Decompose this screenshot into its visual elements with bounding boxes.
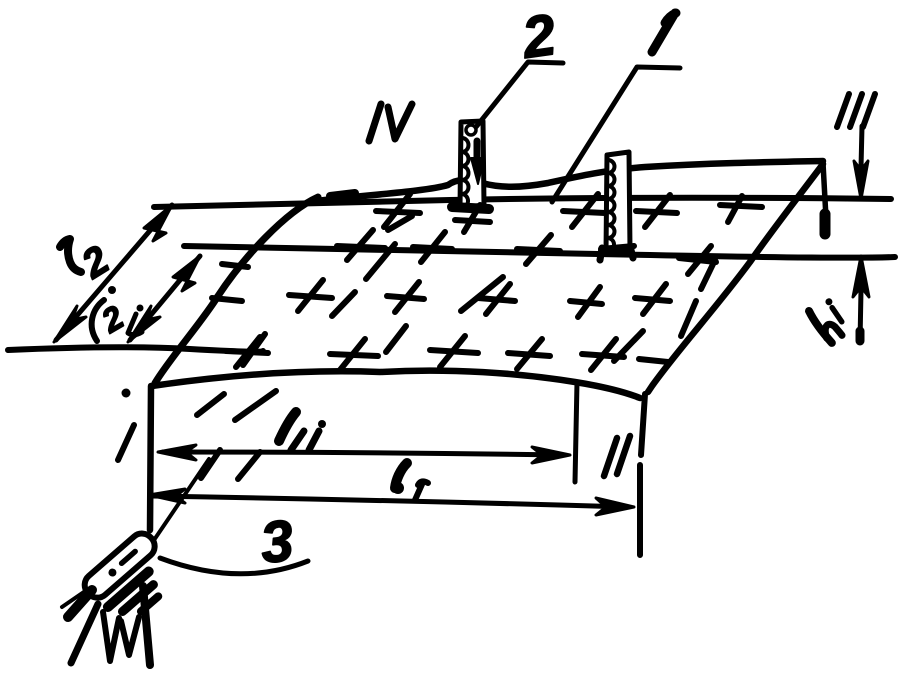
wire right vertical edge of front face	[575, 382, 577, 482]
label III (corner)	[837, 94, 875, 127]
label II (corner)	[604, 436, 630, 476]
markers row 3 (front edge)	[226, 336, 668, 370]
level instrument 3 on tripod	[62, 459, 209, 665]
wire right diagonal edge from corner III to corner II	[648, 164, 823, 392]
markers row 1 (between lines A and B)	[376, 194, 762, 227]
dimension l2i bottom arrowhead	[128, 306, 160, 342]
wire right vertical edge below corner II	[640, 394, 645, 555]
dimension l1 right arrowhead	[596, 498, 634, 515]
junction knot at top of left edge	[330, 193, 355, 196]
leader for label 2	[476, 62, 563, 127]
telescope tube	[80, 529, 183, 630]
mount block	[108, 572, 149, 607]
dimension l1 line	[152, 496, 628, 507]
label hi	[802, 293, 856, 346]
dimension l2 shaft	[56, 205, 172, 340]
leader for label 1	[552, 67, 680, 202]
dimension l2 bottom arrowhead	[54, 306, 86, 342]
wire top back edge of surface 1	[310, 161, 823, 202]
ticks on left edge	[222, 264, 248, 267]
wire bottom-left road edge line	[8, 347, 263, 351]
sight line	[152, 459, 209, 543]
tripod legs	[71, 604, 98, 663]
left knob leg	[68, 590, 92, 617]
svg-text:2: 2	[94, 298, 130, 340]
dimension l1i left arrowhead	[158, 445, 196, 460]
dimension l1i right arrowhead	[532, 447, 570, 463]
leader for label 3	[160, 558, 308, 574]
node line B (lower section line across surface)	[184, 246, 895, 258]
label IV (corner)	[369, 104, 381, 141]
dimension l2i top arrowhead	[173, 256, 200, 291]
axis line stub	[62, 585, 94, 607]
dimension l1 left arrowhead	[149, 489, 185, 503]
dimension l2i shaft	[130, 256, 200, 340]
staff 2 (graduated rod)	[452, 121, 489, 209]
staff 1 (graduated rod near corner III)	[600, 152, 634, 260]
label I (corner i)	[122, 389, 131, 398]
node line A (upper section line across surface)	[154, 198, 891, 207]
wire left vertical edge of front face	[150, 386, 151, 530]
marker below staff 2	[455, 220, 490, 222]
wire corner III plumb drop line	[823, 163, 826, 218]
dimension l1i line	[163, 452, 565, 455]
label l2i	[92, 298, 144, 341]
wire left edge of surface 1	[155, 197, 318, 383]
dimension l2 top arrowhead	[144, 205, 172, 241]
markers row 2	[289, 280, 670, 317]
wire front edge of surface 1	[152, 371, 640, 398]
markers row on line B	[337, 230, 716, 274]
label l2	[60, 238, 117, 294]
dimension hi upper extension and arrowhead	[861, 126, 862, 168]
label 1 (callout digit)	[652, 13, 676, 52]
label l1i	[279, 412, 326, 450]
dashed diagonal strokes	[197, 216, 715, 479]
dimension hi lower arrowhead and extension	[853, 256, 869, 297]
label l1	[392, 463, 428, 500]
